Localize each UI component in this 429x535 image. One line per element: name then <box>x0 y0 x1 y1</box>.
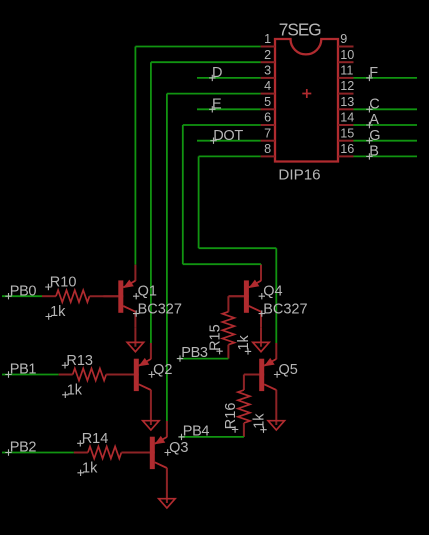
svg-text:BC327: BC327 <box>138 301 182 317</box>
svg-text:PB3: PB3 <box>181 345 208 361</box>
svg-text:E: E <box>212 97 222 113</box>
svg-text:PB2: PB2 <box>10 440 37 456</box>
U1 pin 7 <box>261 126 275 140</box>
svg-text:3: 3 <box>264 64 271 78</box>
U1 pin 11 <box>338 64 354 78</box>
wire Q5 emitter vertical <box>275 248 277 343</box>
svg-text:PB0: PB0 <box>10 283 37 299</box>
resistor R10 <box>42 290 118 302</box>
wire pin6 vertical <box>182 125 184 264</box>
R16 name label <box>223 403 239 433</box>
R10 value 1k <box>46 304 67 320</box>
net label PB1 <box>5 362 36 378</box>
ground GND2 (Q2 collector) <box>143 406 159 430</box>
R13 name label <box>62 353 93 369</box>
resistor R15 <box>222 296 234 358</box>
wire net DOT stub <box>197 140 261 142</box>
ground GND4 (Q4 collector) <box>253 328 269 352</box>
wire pin4 horizontal <box>167 93 261 95</box>
svg-text:DIP16: DIP16 <box>278 167 320 184</box>
svg-text:Q3: Q3 <box>169 440 188 456</box>
wire pin2 vertical to Q2 emitter <box>150 62 152 343</box>
svg-text:5: 5 <box>264 95 271 109</box>
svg-text:Q5: Q5 <box>279 362 298 378</box>
svg-text:1k: 1k <box>251 413 267 429</box>
wire net PB0 <box>2 295 42 297</box>
transistor Q3 <box>135 421 167 484</box>
net label PB0 <box>5 283 36 299</box>
R13 value 1k <box>62 383 83 399</box>
U1 pin 16 <box>338 142 354 156</box>
svg-text:13: 13 <box>340 95 354 109</box>
transistor Q4 <box>229 265 261 328</box>
wire net F <box>354 77 418 79</box>
svg-text:G: G <box>369 128 380 144</box>
svg-text:R15: R15 <box>207 324 223 351</box>
Q4 value BC327 <box>259 301 308 317</box>
wire net C <box>354 108 418 110</box>
wire net PB2 <box>2 452 74 454</box>
net label PB3 <box>177 345 208 362</box>
Q4 name label <box>259 284 283 300</box>
net label DOT <box>210 128 243 144</box>
U1 pin 3 <box>261 64 275 78</box>
svg-text:1k: 1k <box>236 334 252 350</box>
svg-text:16: 16 <box>340 142 354 156</box>
wire net PB1 <box>2 374 59 376</box>
U1 pin 14 <box>338 111 354 125</box>
wire Q4 emitter stub <box>260 263 262 266</box>
R10 name label <box>45 275 76 291</box>
transistor Q2 <box>119 343 151 406</box>
svg-text:Q1: Q1 <box>138 284 157 300</box>
svg-text:8: 8 <box>264 142 271 156</box>
net label G <box>366 128 380 144</box>
svg-text:1k: 1k <box>67 383 83 399</box>
svg-text:7SEG: 7SEG <box>279 19 321 39</box>
Q1 name label <box>133 284 157 300</box>
U1 pin 5 <box>261 95 275 109</box>
wire pin4 vertical to Q3 emitter <box>166 94 168 422</box>
resistor R13 <box>59 369 134 381</box>
svg-text:7: 7 <box>264 126 271 140</box>
svg-text:10: 10 <box>340 48 354 62</box>
svg-text:2: 2 <box>264 48 271 62</box>
transistor Q5 <box>244 343 276 406</box>
svg-text:R10: R10 <box>50 275 77 291</box>
svg-text:1k: 1k <box>82 461 98 477</box>
Q1 value BC327 <box>133 301 182 317</box>
svg-text:1: 1 <box>264 32 271 46</box>
U1 pin 13 <box>338 95 354 109</box>
wire pin1 vertical to Q1 emitter <box>134 47 136 265</box>
net label C <box>366 97 379 113</box>
net label PB2 <box>5 440 36 456</box>
resistor R16 <box>238 375 250 437</box>
Q3 name label <box>165 440 189 456</box>
R16 value 1k <box>251 413 267 433</box>
wire pin8 horizontal <box>199 155 261 157</box>
wire Q5 base corner <box>244 374 259 376</box>
7-segment display U1 body (DIP16 outline with notch) <box>275 39 338 162</box>
svg-text:R16: R16 <box>223 403 239 430</box>
svg-text:PB1: PB1 <box>10 362 37 378</box>
transistor Q1 <box>103 265 135 328</box>
wire Q4 base corner <box>228 295 244 297</box>
wire pin6 horizontal <box>183 124 261 126</box>
svg-text:B: B <box>369 144 379 160</box>
wire pin6 jog to Q4 <box>183 263 261 265</box>
resistor R14 <box>74 447 150 459</box>
net label D <box>209 65 222 81</box>
wire net B <box>354 155 418 157</box>
wire net A <box>354 124 418 126</box>
wire net PB3 <box>178 358 228 360</box>
R14 name label <box>77 431 108 447</box>
Q5 name label <box>274 362 298 378</box>
net label E <box>209 97 222 113</box>
R14 value 1k <box>77 461 98 477</box>
svg-text:R14: R14 <box>82 431 109 447</box>
U1 pin 15 <box>338 126 354 140</box>
net label F <box>366 65 378 81</box>
svg-text:4: 4 <box>264 79 271 93</box>
R15 value 1k <box>236 334 252 354</box>
net label B <box>366 144 379 160</box>
wire net D stub <box>197 77 261 79</box>
wire net E stub <box>197 108 261 110</box>
svg-text:D: D <box>212 65 222 81</box>
svg-text:PB4: PB4 <box>183 423 210 439</box>
U1 pin 8 <box>261 142 275 156</box>
net label PB4 <box>178 423 209 440</box>
svg-text:BC327: BC327 <box>263 301 307 317</box>
ground GND1 (Q1 collector) <box>127 328 143 352</box>
ground GND5 (Q5 collector) <box>268 406 284 430</box>
U1 name 7SEG <box>279 19 321 39</box>
wire net PB4 <box>180 436 244 438</box>
U1 pin 1 <box>261 32 275 46</box>
svg-text:F: F <box>369 65 378 81</box>
wire net G <box>354 140 418 142</box>
wire pin8 jog to Q5 <box>199 247 277 249</box>
svg-text:1k: 1k <box>50 304 66 320</box>
svg-text:12: 12 <box>340 79 354 93</box>
R15 name label <box>207 324 223 354</box>
U1 pin 4 <box>261 79 275 93</box>
wire pin8 vertical <box>198 156 200 248</box>
U1 pin 9 <box>338 32 354 46</box>
U1 pin 10 <box>338 48 354 62</box>
U1 pin 2 <box>261 48 275 62</box>
net label A <box>366 112 379 128</box>
Q2 name label <box>149 362 173 378</box>
svg-text:C: C <box>369 97 379 113</box>
svg-text:A: A <box>369 112 379 128</box>
svg-text:R13: R13 <box>66 353 93 369</box>
svg-text:6: 6 <box>264 111 271 125</box>
svg-text:9: 9 <box>340 32 347 46</box>
wire pin1 horizontal <box>135 46 260 48</box>
svg-text:Q2: Q2 <box>153 362 172 378</box>
svg-text:14: 14 <box>340 111 354 125</box>
ground GND3 (Q3 collector) <box>159 484 175 508</box>
svg-text:11: 11 <box>340 64 353 78</box>
U1 pin 12 <box>338 79 354 93</box>
U1 value DIP16 <box>278 167 320 184</box>
wire pin2 horizontal <box>151 61 261 63</box>
U1 origin cross <box>302 89 311 98</box>
svg-text:DOT: DOT <box>213 128 243 144</box>
U1 pin 6 <box>261 111 275 125</box>
svg-text:Q4: Q4 <box>263 284 282 300</box>
svg-text:15: 15 <box>340 126 354 140</box>
